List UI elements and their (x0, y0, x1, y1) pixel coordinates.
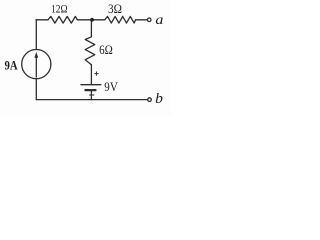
svg-text:9V: 9V (104, 80, 118, 94)
svg-text:12Ω: 12Ω (51, 3, 68, 15)
svg-text:b: b (155, 91, 163, 107)
svg-text:9A: 9A (5, 58, 19, 73)
svg-text:a: a (155, 12, 163, 27)
svg-text:6Ω: 6Ω (99, 43, 113, 57)
svg-text:3Ω: 3Ω (108, 2, 122, 16)
